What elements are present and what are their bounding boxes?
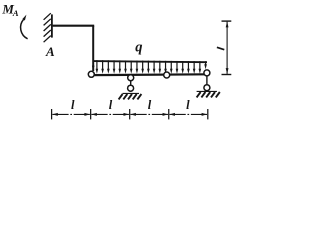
svg-text:A: A	[12, 8, 19, 18]
svg-text:A: A	[45, 44, 55, 59]
distributed load line	[93, 61, 207, 62]
middle support lower hinge	[128, 85, 134, 91]
right support ground	[197, 91, 220, 97]
svg-text:l: l	[148, 98, 152, 112]
top horizontal member from wall	[53, 25, 95, 27]
middle support upper hinge	[128, 75, 134, 81]
vertical dimension label l (rotated)	[217, 47, 224, 49]
arrowhead at member bottom (first load arrow)	[92, 66, 95, 71]
lower beam	[91, 73, 207, 76]
internal hinge on beam	[164, 72, 170, 78]
bottom dimension line	[52, 109, 208, 119]
hinge circle at left beam end	[88, 71, 94, 77]
vertical dimension l (right)	[222, 21, 232, 74]
wall hatching	[44, 13, 51, 42]
fixed support wall at A	[51, 14, 53, 37]
right support lower hinge	[204, 85, 210, 91]
right support link	[206, 73, 208, 88]
middle support ground	[119, 93, 142, 99]
moment arrow (arc) at A	[21, 19, 28, 38]
right support upper hinge	[204, 70, 210, 76]
svg-text:l: l	[71, 98, 75, 112]
svg-text:q: q	[135, 39, 142, 55]
svg-text:l: l	[186, 98, 190, 112]
vertical member down to hinge	[92, 26, 94, 71]
distributed load arrows	[96, 60, 207, 74]
middle support link	[130, 78, 132, 89]
svg-text:l: l	[109, 98, 113, 112]
